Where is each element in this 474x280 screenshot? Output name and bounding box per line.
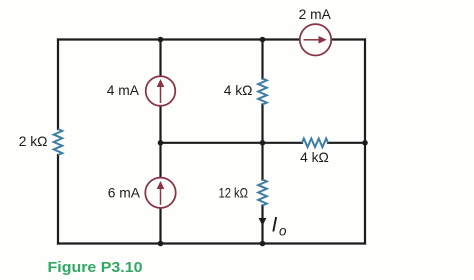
svg-text:o: o	[279, 224, 287, 239]
svg-text:4 kΩ: 4 kΩ	[224, 83, 253, 98]
svg-text:2 mA: 2 mA	[299, 7, 332, 22]
svg-text:4 mA: 4 mA	[107, 83, 140, 98]
svg-text:2 kΩ: 2 kΩ	[19, 134, 48, 149]
svg-text:I: I	[272, 214, 278, 237]
svg-text:4 kΩ: 4 kΩ	[300, 150, 329, 165]
svg-text:6 mA: 6 mA	[108, 185, 141, 200]
svg-text:12 kΩ: 12 kΩ	[219, 185, 249, 200]
svg-text:Figure P3.10: Figure P3.10	[48, 260, 143, 276]
